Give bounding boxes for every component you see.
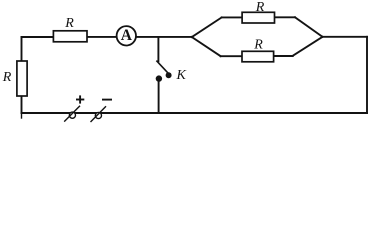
svg-text:R: R (253, 38, 263, 53)
svg-text:A: A (121, 27, 133, 44)
svg-text:R: R (64, 16, 74, 31)
svg-text:R: R (2, 70, 12, 85)
svg-text:K: K (176, 68, 187, 83)
svg-text:R: R (255, 0, 265, 15)
